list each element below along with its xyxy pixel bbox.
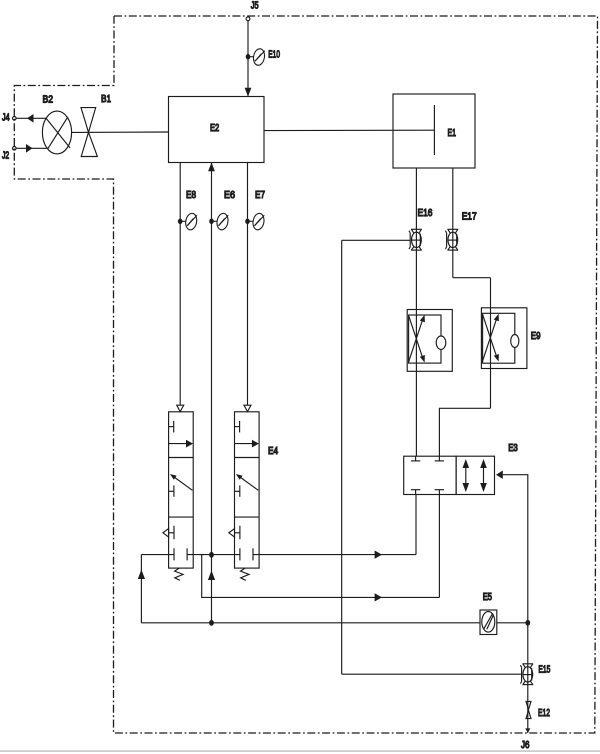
wire riser to E15 [342, 673, 522, 675]
wire third row to E5 [141, 622, 480, 624]
wire E2 to E1 [264, 129, 434, 131]
page bottom edge line [0, 750, 600, 752]
check-orifice block E9 [481, 308, 540, 369]
wire valve bottoms row (y=554.6) [141, 554, 174, 556]
svg-text:E8: E8 [186, 190, 196, 201]
wire E9 down to E3 port 2 [439, 408, 490, 456]
wire J4 to blower B2 [16, 117, 46, 119]
svg-text:B2: B2 [43, 95, 54, 106]
E3 double arrows (right cell) [463, 459, 487, 492]
junction dot pilot line / E5 row [525, 620, 530, 626]
junction dot left valve / E6 line [209, 552, 214, 558]
wire left riser down [341, 240, 343, 674]
directional valve (left, unlabeled) [163, 412, 193, 581]
svg-text:J5: J5 [251, 0, 259, 11]
svg-text:E10: E10 [268, 50, 280, 61]
svg-text:E4: E4 [268, 446, 278, 457]
wire E16 pilot to left riser [342, 239, 411, 241]
junction dot E6 line / third row [209, 620, 214, 626]
wire E3 port2 down [438, 495, 440, 598]
blower B2 (crossed ellipse) [42, 95, 71, 154]
sensor E7 [245, 212, 265, 230]
wire J5 to E2 [247, 21, 249, 97]
wire B2 to E2 [72, 131, 169, 133]
E3 pilot wire with arrow [496, 471, 528, 734]
flow sensor E5 [480, 592, 497, 634]
valve E15 [520, 664, 533, 685]
feed arrow into valve E4 (hollow) [244, 405, 251, 411]
wire left drop to third row [140, 555, 142, 623]
node J6 (port mark at bottom border) [525, 728, 530, 732]
sensor E8 [178, 212, 198, 230]
svg-text:E6: E6 [224, 190, 235, 201]
svg-text:B1: B1 [101, 94, 111, 105]
node J4 (port circle) [13, 117, 17, 121]
E3 port marks (left cell) [411, 456, 444, 494]
tank E1 (box with internal baffle) [393, 94, 475, 168]
wire through E9 block [490, 278, 492, 409]
wire E6 line (E2 bottom to lower junction) [211, 163, 213, 623]
svg-text:E17: E17 [462, 211, 477, 222]
svg-text:E7: E7 [255, 190, 265, 201]
check-orifice block (left, unlabeled) [407, 310, 452, 372]
svg-text:E12: E12 [538, 708, 550, 719]
svg-text:E15: E15 [538, 664, 550, 675]
node J5 (port circle at top border) [246, 17, 250, 21]
svg-text:E9: E9 [531, 331, 541, 342]
valve E17 [445, 229, 458, 250]
wire E5 to pilot line [497, 622, 528, 624]
wire E1 to E17 [452, 168, 454, 278]
wire E17 down and over [453, 277, 491, 279]
controller E2 (box) [169, 97, 265, 163]
directional valve E4 [229, 412, 259, 581]
wire J2 to blower B2 [16, 147, 48, 149]
svg-text:J6: J6 [521, 740, 530, 751]
wire E1 to E16 [415, 168, 417, 456]
svg-text:J4: J4 [2, 113, 10, 124]
svg-text:E16: E16 [418, 208, 433, 219]
wire E2 to E8 line [179, 163, 181, 406]
sensor E10 [246, 48, 266, 66]
feed arrow into left directional valve (hollow) [177, 405, 184, 411]
sensor E6 [209, 212, 229, 230]
svg-text:J2: J2 [2, 150, 9, 161]
node J2 (port circle) [13, 147, 17, 151]
valve E12 (hourglass) [526, 701, 550, 719]
valve B1 (bowtie) [81, 94, 111, 156]
wire elbow to second row [202, 555, 440, 598]
wire E3 port1 down [415, 495, 417, 555]
wire E2 to E7 line [247, 163, 249, 406]
cylinder E3 (two-cell block) [404, 443, 518, 495]
svg-text:E2: E2 [210, 123, 220, 134]
svg-text:E1: E1 [448, 128, 457, 139]
svg-text:E5: E5 [483, 592, 493, 603]
svg-text:E3: E3 [508, 443, 518, 454]
valve E16 [409, 229, 422, 250]
